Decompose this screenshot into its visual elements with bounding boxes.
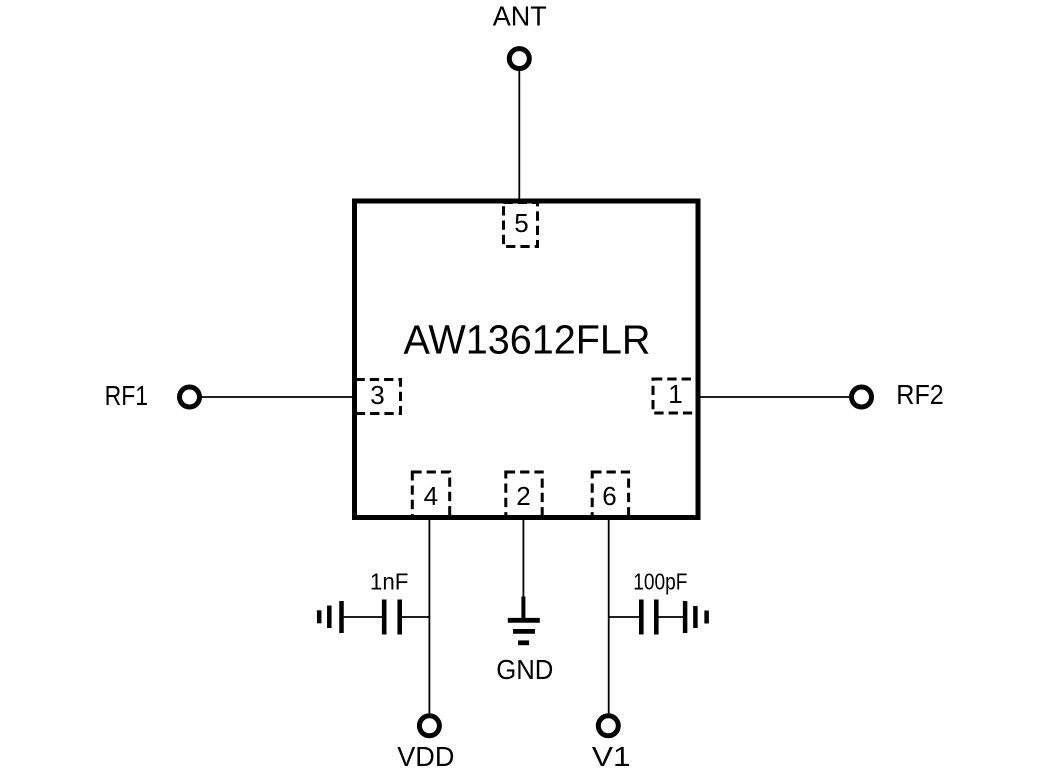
terminal RF2 bbox=[852, 387, 872, 407]
wire ANT to pin 5 bbox=[518, 71, 520, 201]
svg-text:4: 4 bbox=[424, 481, 438, 511]
svg-text:100pF: 100pF bbox=[633, 569, 687, 595]
svg-text:RF1: RF1 bbox=[105, 380, 149, 411]
svg-text:2: 2 bbox=[516, 481, 530, 511]
svg-text:AW13612FLR: AW13612FLR bbox=[404, 316, 651, 362]
svg-text:RF2: RF2 bbox=[896, 379, 944, 410]
ground (left of C1) bar small bbox=[317, 610, 322, 623]
ground (right of C2) bar small bbox=[704, 611, 709, 624]
svg-text:VDD: VDD bbox=[397, 741, 454, 772]
terminal V1 bbox=[598, 716, 618, 736]
ground (right of C2) bar mid bbox=[693, 606, 698, 628]
svg-text:ANT: ANT bbox=[493, 1, 547, 32]
wire pin 4 to VDD bbox=[428, 516, 430, 714]
terminal ANT bbox=[509, 49, 529, 69]
ground GND bar 2 bbox=[513, 629, 535, 634]
ground (left of C1) bar large bbox=[339, 601, 344, 633]
svg-text:1nF: 1nF bbox=[370, 569, 409, 595]
wire pin 1 to RF2 bbox=[698, 396, 849, 398]
pin 2 dashed box bbox=[506, 472, 542, 518]
ground GND bar 3 bbox=[518, 640, 529, 645]
svg-text:GND: GND bbox=[496, 654, 553, 685]
svg-text:V1: V1 bbox=[592, 741, 631, 772]
wire pin 2 stem bbox=[522, 516, 524, 598]
wire C1 to VDD net bbox=[400, 616, 430, 618]
ground GND bar 1 bbox=[508, 618, 540, 623]
ground GND stem stub bbox=[521, 597, 525, 621]
pin 4 dashed box bbox=[412, 472, 449, 518]
ground (left of C1) bar mid bbox=[327, 606, 332, 629]
svg-text:3: 3 bbox=[370, 380, 384, 410]
IC body U1 AW13612FLR bbox=[355, 201, 699, 518]
pin 6 dashed box bbox=[592, 472, 628, 518]
wire RF1 to pin 3 bbox=[202, 396, 354, 398]
ground (right of C2) bar large bbox=[683, 601, 688, 633]
svg-text:1: 1 bbox=[668, 379, 682, 409]
pin 3 dashed box bbox=[356, 380, 401, 414]
capacitor C2 100pF plate left bbox=[639, 600, 644, 635]
wire pin 6 to V1 bbox=[608, 516, 610, 714]
capacitor C1 1nF plate right bbox=[397, 600, 402, 635]
svg-text:6: 6 bbox=[602, 481, 616, 511]
wire V1 net to C2 bbox=[609, 616, 642, 618]
wire ground to C1 bbox=[342, 616, 385, 618]
terminal VDD bbox=[419, 716, 439, 736]
pin 5 dashed box bbox=[504, 203, 538, 247]
terminal RF1 bbox=[180, 387, 200, 407]
svg-text:5: 5 bbox=[514, 208, 528, 238]
pin 1 dashed box bbox=[653, 379, 699, 413]
capacitor C1 1nF plate left bbox=[382, 600, 387, 635]
capacitor C2 100pF plate right bbox=[654, 600, 659, 635]
wire C2 to ground bbox=[656, 616, 685, 618]
